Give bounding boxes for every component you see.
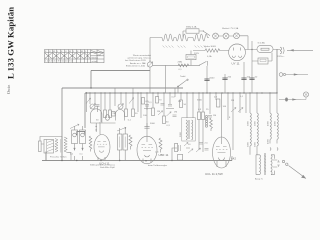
wire bus under output xyxy=(231,156,233,161)
capacitor above bus 1 xyxy=(206,66,208,93)
svg-text:3000: 3000 xyxy=(248,141,250,147)
capacitor above bus 4 xyxy=(249,78,254,80)
choke field coil winding 1b xyxy=(257,113,258,146)
middle component field xyxy=(86,54,278,153)
capacitor above bus 3 xyxy=(243,62,245,93)
wire AVC vertical xyxy=(165,65,167,93)
junction dot fuse line xyxy=(251,49,252,50)
wire fuse loop xyxy=(252,41,258,93)
tube U4 UY11 rectifier xyxy=(229,44,246,61)
wire riser table to bus xyxy=(90,71,92,89)
choke winding 2a xyxy=(270,113,271,139)
wire T3 riser xyxy=(172,148,190,161)
table X marks xyxy=(45,53,90,58)
trimmer arrow m1 xyxy=(158,111,163,115)
mains plug xyxy=(280,47,282,54)
tuning gang verticals xyxy=(90,88,277,152)
resistor block lower xyxy=(186,55,196,60)
resistor urdox zigzag xyxy=(205,49,220,52)
table corner hatch xyxy=(91,51,103,55)
svg-text:4000: 4000 xyxy=(268,138,270,144)
svg-text:50: 50 xyxy=(143,63,146,65)
wire bottom bus xyxy=(42,160,232,162)
table tiny text rows xyxy=(45,51,102,63)
resistor box v2 xyxy=(109,110,112,118)
wire pot to switch xyxy=(153,64,196,66)
resistor box v6 xyxy=(163,116,166,124)
wire link m1 xyxy=(144,108,174,110)
capacitor small 7 xyxy=(205,149,209,151)
external line second speaker xyxy=(279,92,309,102)
wire coil tap riser xyxy=(183,31,186,38)
electrolytic can 2 xyxy=(80,126,86,144)
loudspeaker basket xyxy=(44,140,54,154)
capacitor pair small 2 xyxy=(145,105,149,111)
svg-text:220V=~: 220V=~ xyxy=(277,56,285,58)
svg-text:1M: 1M xyxy=(174,112,177,114)
note text block xyxy=(125,54,152,68)
wire left drop to cans xyxy=(77,93,85,135)
svg-text:Wellen: Wellen xyxy=(92,58,99,60)
svg-text:Freischw. Tiefton: Freischw. Tiefton xyxy=(50,156,67,159)
inductor heater dropper section 1 xyxy=(162,34,174,41)
svg-text:schalt.: schalt. xyxy=(92,60,99,63)
junction dots on bus xyxy=(86,87,278,93)
wire bus main xyxy=(85,92,277,94)
capacitor above bus 2 xyxy=(224,74,226,93)
svg-text:3000: 3000 xyxy=(248,120,250,126)
switch dial lamps xyxy=(199,31,210,36)
resistor box v8 xyxy=(202,112,205,120)
switch wave band xyxy=(178,80,187,93)
capacitor small 4 xyxy=(168,105,172,107)
capacitor pair small 1 xyxy=(96,105,100,112)
svg-text:UBF 11: UBF 11 xyxy=(159,153,169,157)
wire loop right xyxy=(268,53,272,61)
svg-text:M: M xyxy=(81,51,83,53)
svg-text:0,1: 0,1 xyxy=(179,69,183,71)
svg-text:UY 11: UY 11 xyxy=(232,62,240,66)
right section xyxy=(248,73,309,181)
trimmer capacitor C ant xyxy=(118,104,123,109)
wire bus upper xyxy=(91,70,150,72)
arrow bottom right xyxy=(289,166,307,179)
title Owin L 133 GW Kapitän xyxy=(6,7,16,94)
svg-text:3000: 3000 xyxy=(255,120,257,126)
svg-text:bei Gleichstrom 220V: bei Gleichstrom 220V xyxy=(125,59,146,62)
capacitor small 3 xyxy=(161,104,165,106)
transformer core speaker xyxy=(61,139,62,153)
svg-text:4000: 4000 xyxy=(268,120,270,126)
wire speaker top xyxy=(40,137,62,147)
svg-text:5000: 5000 xyxy=(210,78,216,80)
svg-text:2M: 2M xyxy=(178,101,181,103)
svg-text:50: 50 xyxy=(184,104,187,106)
capacitor small 6 xyxy=(199,143,203,145)
resistor zigzag vertical 1 xyxy=(129,135,132,150)
resistor box v7 xyxy=(180,100,183,108)
fuse Si 0,8A xyxy=(257,46,273,53)
resistor box v3 xyxy=(125,109,128,117)
bottom labels xyxy=(90,152,167,170)
transformer winding speaker secondary xyxy=(64,137,67,152)
lamp dial 1 xyxy=(213,33,219,39)
svg-text:30: 30 xyxy=(96,120,99,122)
loudspeaker magnet xyxy=(39,141,42,152)
svg-text:5000 geerdet am Chassis: 5000 geerdet am Chassis xyxy=(90,164,116,167)
svg-text:Werte unverändert: Werte unverändert xyxy=(133,54,151,57)
label cluster tuning xyxy=(96,113,147,122)
bottom section xyxy=(39,93,233,169)
wire rectifier to fuse xyxy=(245,49,280,51)
svg-text:0,3: 0,3 xyxy=(198,109,202,111)
resistor box v9 xyxy=(198,112,201,120)
svg-text:Tonbl.: Tonbl. xyxy=(180,76,186,78)
svg-text:5000: 5000 xyxy=(150,123,156,125)
resistor zigzag vertical 2 xyxy=(159,138,162,153)
svg-text:1M: 1M xyxy=(213,115,216,117)
svg-text:2M: 2M xyxy=(231,100,234,102)
svg-text:Ausg.Tr.: Ausg.Tr. xyxy=(255,178,263,181)
svg-text:Sieb-Elko 50µF: Sieb-Elko 50µF xyxy=(100,167,116,169)
inductor heater dropper section 3 xyxy=(193,34,207,41)
wire coils feed xyxy=(150,37,209,39)
svg-text:0,1: 0,1 xyxy=(240,96,244,98)
tube V3 UCL11 output xyxy=(205,131,237,176)
svg-text:5000: 5000 xyxy=(180,131,182,137)
svg-text:Skalenl. 7V 0,3A: Skalenl. 7V 0,3A xyxy=(222,27,239,30)
svg-text:0,2: 0,2 xyxy=(214,97,218,99)
lamp dial 2 xyxy=(223,33,229,39)
IF transformer T2 xyxy=(180,118,195,142)
svg-text:M: M xyxy=(53,51,55,53)
wire secondary to jack xyxy=(273,160,278,167)
choke winding 2b xyxy=(277,113,278,139)
svg-text:0,3: 0,3 xyxy=(167,125,171,127)
resistor box v4 xyxy=(132,109,135,117)
lamp dial 3 xyxy=(234,33,240,39)
svg-text:70: 70 xyxy=(159,100,162,102)
wire left riser xyxy=(149,38,151,63)
label transformer xyxy=(255,178,263,181)
resistor box v5c xyxy=(156,97,159,104)
wire speaker drop xyxy=(45,152,47,161)
wire urdox left xyxy=(193,50,229,52)
box on bus xyxy=(178,155,183,161)
svg-text:50: 50 xyxy=(188,144,191,146)
svg-text:4000: 4000 xyxy=(275,120,277,126)
svg-text:0,1: 0,1 xyxy=(128,120,132,122)
top section xyxy=(150,26,313,93)
wire block riser xyxy=(190,51,192,66)
capacitor small 5 xyxy=(208,116,212,118)
output transformer secondary xyxy=(271,155,272,175)
junction dots bottom bus xyxy=(61,160,172,162)
resistor box v5b xyxy=(142,98,145,105)
capacitor small 4b xyxy=(173,115,177,117)
svg-text:Owin: Owin xyxy=(6,84,11,94)
wire bus middle xyxy=(62,87,183,89)
resistor box v1 xyxy=(104,110,107,118)
svg-text:50: 50 xyxy=(135,113,138,115)
svg-text:M: M xyxy=(69,51,71,53)
transformer frame wires xyxy=(256,155,275,175)
svg-text:30: 30 xyxy=(166,122,169,124)
wire cans to bus xyxy=(75,144,83,161)
svg-text:8: 8 xyxy=(229,117,231,119)
capacitor bottom pair xyxy=(179,142,189,151)
wire mains cable xyxy=(287,49,313,51)
coil loop above V1 xyxy=(91,109,102,123)
coil bead column xyxy=(205,115,207,127)
label cluster right xyxy=(206,97,231,120)
capacitor across secondary xyxy=(277,160,280,167)
trimmer arrows pair xyxy=(231,108,236,113)
wire left vertical xyxy=(61,88,63,161)
band switch table xyxy=(45,50,105,64)
output transformer primary xyxy=(260,155,261,175)
svg-text:3000: 3000 xyxy=(255,141,257,147)
external line pickup xyxy=(279,73,308,77)
svg-text:UCL 11 2,5W: UCL 11 2,5W xyxy=(205,172,223,176)
resistor box v5 xyxy=(152,108,155,116)
trimmer capacitor C osc xyxy=(90,104,95,109)
speaker jack circles xyxy=(282,160,284,162)
IF can pair second xyxy=(117,127,127,160)
svg-text:Entbrummer 0–50Ω: Entbrummer 0–50Ω xyxy=(126,65,146,68)
trimmer arrow m2 xyxy=(167,112,172,116)
svg-text:Urdox 300Ω: Urdox 300Ω xyxy=(204,45,216,48)
svg-text:0,1: 0,1 xyxy=(149,102,153,104)
svg-text:0,1: 0,1 xyxy=(70,154,74,156)
resistor dropper xyxy=(186,29,199,33)
svg-text:250: 250 xyxy=(228,77,232,79)
svg-text:2MΩ: 2MΩ xyxy=(178,62,183,64)
switch over cans xyxy=(70,124,79,129)
svg-text:100: 100 xyxy=(223,106,227,108)
wire mains return vertical xyxy=(276,49,278,93)
resistor zigzag left of V1 xyxy=(89,136,92,152)
resistor loop box xyxy=(258,58,268,64)
svg-text:50: 50 xyxy=(255,77,258,79)
label cluster det xyxy=(172,96,244,146)
transformer winding speaker primary xyxy=(55,139,58,153)
wire chokes to transformer xyxy=(250,140,278,155)
switch arrow left gang xyxy=(86,98,91,104)
tubes xyxy=(94,122,236,176)
svg-text:380Ω 0,1A: 380Ω 0,1A xyxy=(186,26,197,29)
inductor heater dropper section 2 xyxy=(176,34,188,41)
svg-text:220V: 220V xyxy=(194,53,200,55)
svg-text:2,5: 2,5 xyxy=(205,143,209,145)
wire urdox drop xyxy=(207,61,209,66)
tube V2 UBF11 xyxy=(137,123,169,164)
resistor box v10 xyxy=(175,144,178,152)
svg-text:0,1: 0,1 xyxy=(80,154,84,156)
label cluster m xyxy=(146,100,178,126)
svg-text:1 2 3 4 5 6 7 8 9 10 11 12 13: 1 2 3 4 5 6 7 8 9 10 11 12 13 xyxy=(45,61,74,63)
label cluster mid xyxy=(149,100,203,128)
transformer core xyxy=(264,153,265,175)
tube V1 UCH11 xyxy=(94,122,110,166)
svg-text:0,1A: 0,1A xyxy=(207,55,212,58)
choke field coil winding 1a xyxy=(250,113,251,146)
potentiometer entbrummer xyxy=(147,62,152,67)
resistor box h1 xyxy=(217,99,220,107)
svg-text:L 133 GW Kapitän: L 133 GW Kapitän xyxy=(6,7,16,79)
svg-text:25: 25 xyxy=(206,109,209,111)
coil loop 2 xyxy=(116,110,125,121)
switch arrows detector xyxy=(188,149,193,153)
tiny box above V1 xyxy=(112,112,116,117)
switch mains xyxy=(196,61,207,65)
electrolytic can 1 xyxy=(72,126,78,144)
svg-text:Si 0,8A: Si 0,8A xyxy=(258,42,266,45)
wire lamps link xyxy=(218,36,248,50)
resistor zigzag vertical IF xyxy=(210,118,213,131)
switch blade band xyxy=(129,98,134,104)
svg-text:5000: 5000 xyxy=(197,100,203,102)
wires main buses xyxy=(42,49,277,161)
trimmer oval above V1 xyxy=(105,115,109,121)
wire speaker bottom to bus xyxy=(46,152,71,160)
junction dots V1 top xyxy=(96,126,97,131)
svg-text:1M: 1M xyxy=(157,111,160,113)
resistor zigzag on AVC line xyxy=(178,64,189,67)
svg-text:beim Tiefbassregler: beim Tiefbassregler xyxy=(148,164,167,167)
